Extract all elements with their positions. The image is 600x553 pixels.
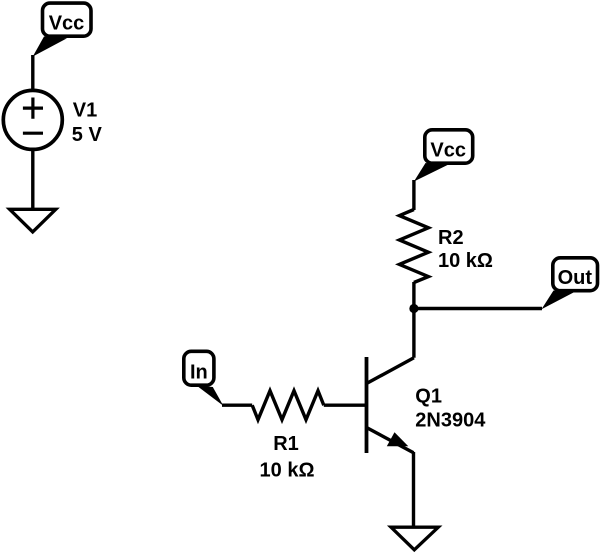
wire Vcc to R2 top bbox=[412, 180, 415, 210]
wire V1 minus to ground bbox=[31, 149, 34, 210]
net label Vcc (right, at R2) bbox=[414, 130, 473, 182]
svg-text:Vcc: Vcc bbox=[49, 13, 85, 35]
resistor R1 bbox=[252, 391, 324, 420]
svg-text:10 kΩ: 10 kΩ bbox=[438, 250, 493, 272]
svg-text:Q1: Q1 bbox=[415, 385, 442, 407]
wire junction to Out bbox=[414, 307, 542, 310]
label Q1 2N3904 bbox=[415, 385, 486, 431]
svg-text:V1: V1 bbox=[73, 100, 97, 122]
wire emitter to ground bbox=[412, 452, 415, 526]
svg-text:In: In bbox=[190, 362, 208, 384]
svg-text:R1: R1 bbox=[273, 433, 299, 455]
label R1 10 kOhm bbox=[260, 433, 315, 481]
svg-text:R2: R2 bbox=[438, 227, 464, 249]
ground (below V1) bbox=[10, 209, 56, 232]
label V1 5 V bbox=[72, 100, 103, 147]
label R2 10 kOhm bbox=[438, 227, 493, 272]
svg-text:2N3904: 2N3904 bbox=[415, 409, 486, 431]
net label Vcc (left, at V1) bbox=[33, 3, 91, 56]
svg-text:Out: Out bbox=[558, 267, 593, 289]
transistor Q1 (NPN) bbox=[367, 357, 414, 453]
net label Out bbox=[542, 258, 598, 310]
resistor R2 bbox=[399, 210, 428, 283]
wire R1 to Q1 base bbox=[324, 404, 367, 407]
ground (below Q1 emitter) bbox=[391, 527, 438, 550]
node junction (collector / out) bbox=[409, 304, 418, 313]
voltage source V1 bbox=[3, 90, 62, 149]
svg-text:5 V: 5 V bbox=[72, 124, 103, 146]
net label In bbox=[184, 351, 224, 405]
svg-text:Vcc: Vcc bbox=[430, 139, 466, 161]
wire R2 bottom to collector corner bbox=[412, 282, 415, 358]
svg-text:10 kΩ: 10 kΩ bbox=[260, 459, 315, 481]
wire In to R1 bbox=[222, 404, 252, 407]
wire Vcc to V1 plus bbox=[31, 55, 34, 91]
